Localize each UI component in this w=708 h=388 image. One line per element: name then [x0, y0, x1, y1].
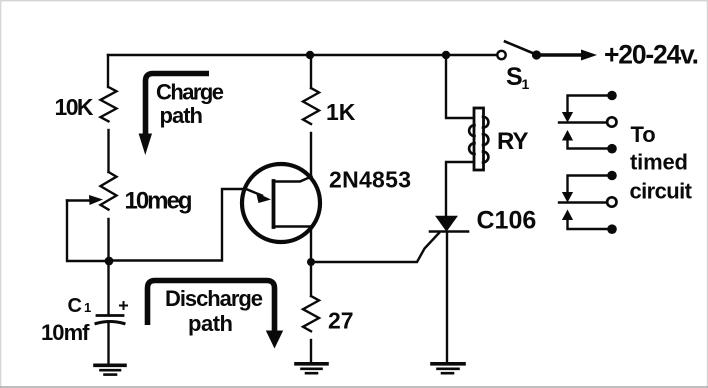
svg-text:+20-24v.: +20-24v. [604, 40, 699, 70]
svg-text:Discharge: Discharge [165, 286, 263, 311]
svg-text:10K: 10K [55, 94, 94, 120]
svg-text:27: 27 [328, 308, 354, 334]
svg-text:RY: RY [497, 128, 529, 155]
svg-text:circuit: circuit [630, 179, 693, 204]
svg-text:path: path [160, 103, 204, 128]
svg-text:1: 1 [84, 300, 91, 315]
svg-text:2N4853: 2N4853 [329, 167, 411, 193]
svg-text:timed: timed [630, 150, 688, 175]
svg-text:1K: 1K [326, 99, 356, 125]
svg-text:1: 1 [522, 76, 530, 92]
svg-text:C106: C106 [477, 207, 537, 235]
svg-text:To: To [631, 122, 656, 147]
svg-text:path: path [188, 311, 233, 336]
svg-text:10mf: 10mf [41, 320, 90, 345]
svg-text:Charge: Charge [156, 80, 224, 105]
svg-text:10meg: 10meg [125, 188, 193, 215]
svg-text:C: C [68, 295, 82, 317]
svg-text:S: S [506, 63, 523, 91]
